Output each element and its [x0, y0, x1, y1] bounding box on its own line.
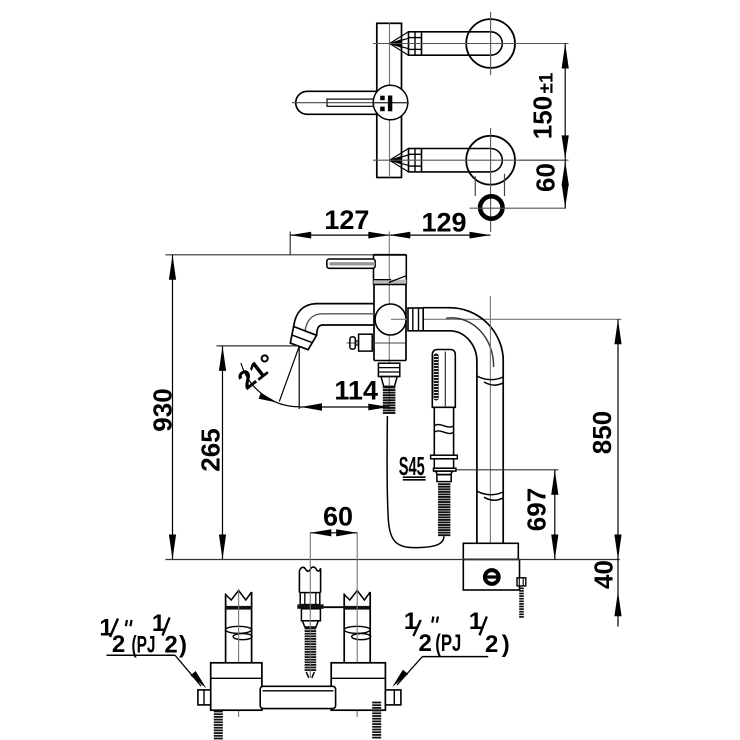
bottom view: center stud pipe with break top	[299, 567, 320, 592]
front view: horizontal riser pipe	[423, 307, 450, 309]
top view: supply pipe at y=43.5	[422, 31, 491, 33]
front view: flexible hose loop	[387, 416, 444, 548]
top view: handle centerline	[292, 102, 409, 104]
hand shower: head outline	[432, 350, 455, 408]
front view: riser connection nut	[408, 308, 423, 331]
dimension 930: dimension line	[172, 255, 174, 560]
svg-text:(PJ: (PJ	[435, 630, 461, 657]
front view: riser bend middle shading arc	[446, 318, 494, 367]
top view: union nut at y=160.2	[409, 149, 422, 172]
angle 21deg: slanted spout axis ray	[279, 346, 299, 401]
front view: hose union nut under body	[378, 363, 399, 376]
svg-text:1: 1	[99, 615, 112, 642]
front view: hose connector taper	[381, 377, 397, 387]
svg-text:930: 930	[148, 388, 178, 431]
bottom view: left fixing screw	[214, 711, 223, 713]
bottom view: right pipe mounting band (bold)	[344, 606, 371, 610]
svg-text:): )	[179, 632, 187, 659]
front view: riser upper coupling	[477, 376, 503, 380]
bottom view: left supply pipe	[225, 594, 227, 663]
svg-text:129: 129	[421, 208, 466, 238]
top view: cone fitting at y=43.5	[390, 32, 409, 44]
bottom view: right supply pipe	[343, 594, 345, 663]
front view: wall screw right of bracket	[517, 578, 526, 586]
hand shower: handle break squiggle	[434, 425, 453, 428]
svg-text:±1: ±1	[537, 72, 558, 93]
bottom view: left pipe mounting band (bold)	[225, 606, 252, 610]
bottom view: stud lower block	[301, 609, 320, 621]
bottom view: right mounting block	[331, 663, 385, 710]
bottom view: stud threaded rod	[305, 628, 317, 630]
dimension 150+-1: extension line middle	[519, 159, 569, 161]
bottom view: stud flange (bold bar)	[297, 604, 323, 608]
svg-text:127: 127	[324, 205, 369, 235]
bottom view: left inlet nipple	[198, 690, 211, 705]
bottom view: stud nut	[300, 593, 320, 605]
top view: shower holder tube	[474, 176, 476, 196]
dimension 697: extension line top	[457, 469, 559, 471]
svg-text:2: 2	[112, 631, 125, 658]
dimension 40: bottom arrow	[614, 591, 621, 616]
top view: holder horizontal centerline / 60 extension	[470, 207, 566, 209]
front view: body	[373, 285, 375, 361]
top view: supply pipe at y=160.2	[422, 148, 491, 150]
top view: cone fitting at y=160.2	[390, 149, 409, 161]
bottom view: left mounting block	[211, 663, 262, 710]
front view: wall bracket upper block	[463, 543, 518, 559]
top view: flange horizontal centerline y=43.5	[373, 43, 565, 45]
front view: spout lower edge	[317, 325, 374, 335]
front view: riser centerline	[489, 296, 491, 543]
front view: pipe centerline / 850 extension	[391, 318, 622, 320]
top view: cartridge lever bar	[388, 96, 392, 112]
front view: spout inner shading line	[305, 314, 374, 331]
bottom view: left pipe centerline	[238, 589, 240, 717]
front view: riser lower coupling	[477, 491, 503, 495]
svg-text:850: 850	[587, 411, 617, 454]
dimension 265: extension line top	[217, 345, 299, 347]
hand shower: head front edge line	[444, 352, 446, 408]
top view: wall flange circle at y=43.5	[466, 19, 515, 68]
top view: flange horizontal centerline y=160.2	[373, 159, 565, 161]
svg-text:60: 60	[531, 163, 561, 192]
dimension 150+-1: dimension line	[564, 44, 566, 209]
hand shower: flange ring	[431, 455, 458, 459]
label left 1/2"(PJ 1/2): leader line	[107, 654, 176, 656]
dimension 127: extension line left	[289, 232, 291, 255]
bottom view: right pipe break line	[344, 591, 370, 601]
front view: aerator (tilted end piece)	[290, 327, 316, 350]
svg-text:S45: S45	[399, 451, 425, 481]
bottom view: stud tip	[306, 672, 314, 678]
front view: shower joint circle	[375, 304, 406, 335]
top view: faucet body	[377, 23, 402, 177]
dimension 850/40: dimension line	[617, 319, 619, 626]
front view: faucet neck	[373, 255, 375, 285]
hand shower: lower grip	[434, 459, 453, 468]
svg-text:2: 2	[419, 630, 432, 657]
hand shower: cone connector	[436, 471, 453, 475]
front view: spout outer edge	[294, 304, 374, 327]
hand shower: spray face strip	[434, 354, 439, 401]
dimension 60 bottom: dimension line	[310, 532, 357, 534]
angle 21deg: arc arrowhead	[259, 393, 278, 403]
svg-text:265: 265	[196, 428, 226, 471]
dimension 60 top-right: arrows	[562, 161, 569, 185]
svg-text:114: 114	[334, 375, 378, 405]
svg-text:697: 697	[522, 488, 552, 531]
front view: hose spring coil (faucet side)	[383, 387, 396, 389]
bottom view: central connecting bar	[260, 686, 335, 708]
top view: shower holder ring (bold circle)	[480, 196, 502, 218]
bottom view: stud to right pipe line	[324, 606, 345, 608]
front view: wall bracket lower block	[463, 560, 519, 591]
top view: flange vertical centerline lower / 129 extension	[490, 128, 492, 232]
svg-text:): )	[502, 631, 510, 658]
front view: 930 top extension line / faucet top line	[166, 254, 407, 256]
dimension 127/129: dimension line	[290, 234, 490, 236]
front view: diverter knob	[347, 342, 406, 344]
dimension 265: dimension line	[222, 346, 224, 560]
front view centerline (faucet axis)	[388, 232, 390, 412]
hand shower: handle	[433, 407, 435, 455]
front view: bonnet slant highlight	[389, 276, 406, 283]
top view: body centerline	[389, 23, 391, 177]
top view: handle stem	[327, 99, 377, 106]
svg-text:2: 2	[164, 632, 177, 659]
label right 1/2"(PJ 1/2): leader line	[422, 656, 488, 658]
hand shower: hose nut	[437, 475, 451, 482]
svg-text:150: 150	[528, 96, 558, 139]
front view: handle bar	[327, 259, 375, 268]
bottom view: right pipe union	[344, 626, 370, 633]
bottom view: left pipe break line	[226, 591, 252, 601]
bottom view: right fixing screw	[372, 702, 381, 704]
front view: riser bend outer arc	[450, 308, 504, 362]
svg-text:2: 2	[485, 631, 498, 658]
top view: cartridge circle	[373, 85, 408, 120]
dimension 114: dimension line	[299, 406, 389, 408]
angle 21deg: arc	[241, 363, 299, 407]
hand shower: hose spring coil	[438, 483, 450, 485]
bottom view: stud taper	[302, 621, 318, 627]
bottom view: right inlet nipple	[385, 690, 401, 705]
front view: riser vertical pipe	[476, 362, 478, 544]
angle 21deg: vertical ray	[298, 346, 300, 409]
dimension 697: dimension line	[554, 470, 556, 560]
front view: bonnet band	[374, 280, 407, 285]
front view: bracket screw head (bold circle)	[485, 570, 499, 584]
top view: lever handle (stadium shape)	[296, 91, 377, 114]
svg-text:60: 60	[323, 502, 353, 532]
svg-text:40: 40	[589, 560, 619, 589]
top view: wall flange circle at y=160.2	[466, 136, 515, 185]
hand shower: lower ring	[434, 468, 456, 471]
top view: flange vertical centerline upper	[490, 12, 492, 75]
top view: union nut at y=43.5	[409, 32, 422, 55]
bottom view: right pipe centerline / 60 extension right	[356, 533, 358, 717]
top view: cartridge hot/cold dots	[380, 96, 385, 101]
front view: riser bend inner arc	[450, 331, 477, 362]
tub deck line	[166, 559, 620, 561]
dimension 150+-1: extension line top	[519, 43, 569, 45]
bottom view: stud centerline / 60 extension left	[309, 533, 311, 678]
bottom view: left pipe union	[226, 626, 252, 633]
